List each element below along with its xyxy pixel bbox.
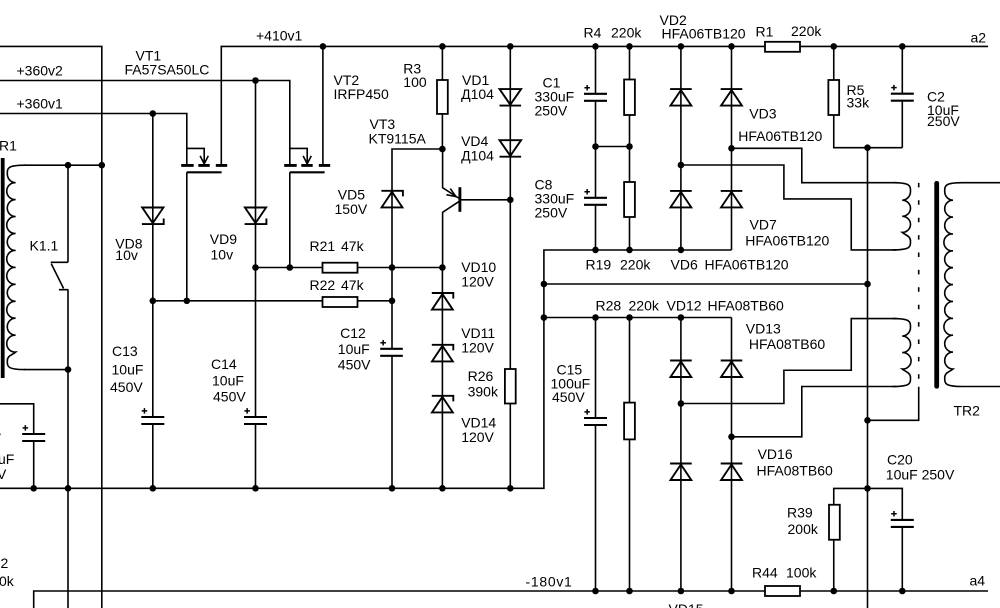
wire VT2 drain (322, 46, 324, 165)
resistor R4 (624, 80, 635, 116)
capacitor C8 (584, 189, 607, 205)
svg-text:10uF: 10uF (112, 362, 144, 378)
wire VD3 node to TR2 primary top (732, 148, 897, 182)
zener VD11 (432, 345, 454, 362)
svg-text:VD15: VD15 (669, 601, 704, 608)
wire -180v1 rail (34, 591, 988, 608)
svg-text:K1.1: K1.1 (30, 238, 59, 254)
zener VD9 (245, 208, 267, 225)
resistor R28 (624, 403, 635, 440)
zener VD5 (381, 191, 403, 208)
svg-text:HFA06TB120: HFA06TB120 (662, 26, 746, 42)
svg-text:C13: C13 (112, 343, 138, 359)
capacitor C15 (584, 409, 607, 425)
svg-text:220k: 220k (611, 25, 642, 41)
wire C15 column (595, 318, 597, 592)
node VD13 tap (728, 434, 735, 441)
svg-text:10uF 250V: 10uF 250V (886, 467, 955, 483)
node +410/VD2 (678, 43, 685, 50)
wire C1/R4 bottom link (596, 146, 630, 148)
svg-text:VD9: VD9 (210, 231, 237, 247)
capacitor C13 (141, 408, 164, 424)
node screen tap (864, 417, 871, 424)
transformer TR2 core bar (934, 181, 939, 389)
wire R22 net (153, 300, 392, 302)
wire VD12 node to TR2 lower primary top (681, 319, 897, 404)
wire VD8 column (152, 114, 154, 489)
wire TR1 top lead (24, 164, 102, 166)
relay contact K1.1 (51, 165, 69, 608)
svg-text:220k: 220k (629, 298, 660, 314)
wire R3 top (441, 46, 443, 80)
wire VD12-VD16 column (680, 318, 682, 592)
node +410/VD3 (728, 43, 735, 50)
svg-text:7: 7 (0, 430, 2, 446)
svg-text:C14: C14 (211, 356, 237, 372)
wire mid link line (544, 283, 868, 285)
node C1 bottom (592, 143, 599, 150)
zener VD10 (432, 293, 454, 310)
svg-text:450V: 450V (552, 389, 585, 405)
wire R4-R19 column (629, 46, 631, 250)
svg-text:VD7: VD7 (750, 217, 777, 233)
node +360v1/VD8 (150, 110, 157, 117)
diode VD7 (721, 191, 743, 208)
diode VD17 (721, 464, 743, 481)
svg-text:200k: 200k (788, 521, 819, 537)
svg-text:HFA08TB60: HFA08TB60 (708, 298, 784, 314)
svg-text:100: 100 (403, 74, 427, 90)
svg-text:47k: 47k (341, 277, 365, 293)
svg-text:150V: 150V (335, 201, 368, 217)
wire left cap bottom lead (33, 441, 35, 488)
svg-text:uF: uF (0, 451, 14, 467)
wire C1-C8 column (595, 46, 597, 250)
svg-text:2: 2 (1, 555, 9, 571)
node +410/R3 (439, 43, 446, 50)
svg-text:450V: 450V (338, 357, 371, 373)
svg-text:VD16: VD16 (758, 446, 793, 462)
svg-text:HFA08TB60: HFA08TB60 (757, 463, 833, 479)
resistor R3 (437, 80, 448, 114)
svg-text:390k: 390k (468, 383, 499, 399)
resistor R21 (323, 263, 358, 273)
junction dots C8 bottom line (592, 247, 684, 254)
svg-text:VD13: VD13 (746, 320, 781, 336)
svg-text:VD10: VD10 (461, 259, 496, 275)
wire VD13 node to TR2 lower primary bottom (732, 387, 897, 437)
svg-text:R44: R44 (752, 565, 778, 581)
node TR1 top / vertical bus (99, 162, 106, 169)
svg-text:+360v1: +360v1 (17, 96, 64, 112)
svg-text:a4: a4 (970, 573, 986, 589)
transformer TR2 core dashed screen (918, 183, 920, 379)
node +360v2/VD9 (252, 77, 259, 84)
svg-text:450V: 450V (110, 379, 143, 395)
node VD2/VD6 tap (678, 162, 685, 169)
svg-text:0k: 0k (0, 573, 15, 589)
diode VD2 (670, 89, 692, 106)
diode VD16 (670, 464, 692, 481)
zener VD14 (432, 396, 454, 413)
wire ground rail to R28 feed (0, 250, 732, 488)
transformer TR1 core bar (1, 158, 5, 378)
svg-text:+360v2: +360v2 (17, 63, 64, 79)
transformer TR2 primary lower winding (893, 319, 911, 387)
svg-text:10v: 10v (211, 246, 234, 262)
svg-text:100k: 100k (786, 565, 817, 581)
svg-text:47k: 47k (341, 238, 365, 254)
svg-text:120V: 120V (461, 339, 494, 355)
svg-text:120V: 120V (461, 429, 494, 445)
svg-text:33k: 33k (847, 95, 871, 111)
wire R39-C20 top link (834, 488, 903, 591)
resistor R5 (828, 80, 839, 115)
svg-text:+410v1: +410v1 (256, 28, 303, 44)
svg-text:VD3: VD3 (749, 105, 776, 121)
node +410/C1 (592, 43, 599, 50)
transformer TR2 secondary winding (944, 183, 963, 387)
wire VD5 column (392, 149, 442, 488)
svg-text:10uF: 10uF (212, 373, 244, 389)
svg-text:HFA06TB120: HFA06TB120 (745, 232, 829, 248)
svg-text:R21: R21 (310, 238, 336, 254)
svg-text:R1: R1 (756, 24, 774, 40)
capacitor C14 (244, 408, 267, 424)
svg-text:R19: R19 (586, 257, 612, 273)
svg-text:Д104: Д104 (461, 86, 494, 102)
diode VD12 (670, 361, 692, 378)
node +410/VD1 (507, 43, 514, 50)
svg-text:TR2: TR2 (954, 403, 981, 419)
diode VD1 (500, 89, 522, 106)
wire VD10-VD11-VD14 column (441, 268, 443, 489)
transformer TR2 primary upper winding (893, 183, 911, 250)
node right bus/R39-C20 (864, 485, 871, 492)
junction dots ground rail (30, 485, 513, 492)
capacitor C2 (891, 85, 914, 101)
node TR1 top / K1.1 (65, 162, 72, 169)
svg-text:a2: a2 (971, 30, 987, 46)
junction dots -180v1 rail (592, 588, 905, 595)
node VT3 base / VD4 (507, 197, 514, 204)
diode VD13 (721, 361, 743, 378)
node a2/C2 (899, 43, 906, 50)
wire R28 rail (544, 317, 732, 319)
wire VD1-VD4-R26 column (509, 46, 511, 488)
svg-text:IRFP450: IRFP450 (334, 86, 389, 102)
wire R21 net (256, 267, 443, 269)
svg-text:250V: 250V (535, 103, 568, 119)
svg-text:R28: R28 (596, 298, 622, 314)
svg-text:250V: 250V (927, 113, 960, 129)
svg-text:V: V (0, 466, 7, 482)
svg-text:HFA06TB120: HFA06TB120 (738, 128, 822, 144)
diode VD6 (670, 191, 692, 208)
wire VD3-VD7 column (731, 46, 733, 250)
svg-text:R39: R39 (787, 505, 813, 521)
svg-text:220k: 220k (791, 23, 822, 39)
node +410/R4 (626, 43, 633, 50)
wire VD2-VD6 column (680, 46, 682, 250)
wire R28 resistor column (629, 318, 631, 592)
wire TR2 screen tap (868, 387, 919, 421)
svg-text:120V: 120V (461, 274, 494, 290)
svg-text:HFA06TB120: HFA06TB120 (705, 257, 789, 273)
svg-text:C12: C12 (340, 325, 366, 341)
wire TR2 secondary top lead (963, 182, 1000, 184)
wire top-left segment and long vertical bus (0, 46, 102, 608)
node +410/VT2 drain (320, 43, 327, 50)
resistor R44 (765, 586, 800, 596)
resistor R39 (829, 505, 840, 540)
wire +360v2 line into VT2 source (0, 81, 290, 166)
svg-text:VD12: VD12 (667, 298, 702, 314)
resistor R26 (505, 369, 516, 404)
wire right vertical bus (867, 148, 869, 608)
svg-text:KT9115A: KT9115A (369, 131, 427, 147)
node TR1 bottom / K1.1 column (65, 366, 72, 373)
svg-text:10v: 10v (115, 247, 138, 263)
svg-text:R1: R1 (0, 138, 17, 154)
wire TR2 secondary bottom lead (963, 386, 1000, 388)
wire R3 bottom to VT3 emitter node (441, 114, 443, 149)
node R3/VD5/VT3e (439, 146, 446, 153)
transistor VT1 (MOSFET FA57SA50LC) (181, 148, 227, 172)
node mid link right (864, 281, 871, 288)
zener VD8 (142, 208, 164, 225)
svg-text:250V: 250V (535, 205, 568, 221)
svg-text:HFA08TB60: HFA08TB60 (749, 336, 825, 352)
transistor VT3 (KT9115A, PNP) (443, 149, 511, 268)
node R5-C2/right bus (864, 144, 871, 151)
svg-text:C20: C20 (887, 452, 913, 468)
svg-text:220k: 220k (620, 257, 651, 273)
resistor R19 (624, 182, 635, 217)
transistor VT2 (MOSFET IRFP450) (284, 148, 330, 172)
capacitor C1 (584, 85, 607, 101)
wire left cap top lead (0, 404, 34, 434)
svg-text:-180v1: -180v1 (526, 574, 573, 590)
capacitor C20 (891, 511, 914, 527)
wire VT1 gate (186, 172, 188, 300)
node VD12 tap (678, 400, 685, 407)
capacitor C12 (380, 340, 403, 356)
wire VT2 gate (289, 172, 291, 267)
node R4 bottom (626, 143, 633, 150)
resistor R22 (323, 297, 358, 307)
svg-text:R22: R22 (310, 277, 336, 293)
wire VD13-VD17 column (731, 318, 733, 592)
wire +410v1 rail to a2 (221, 46, 988, 165)
svg-text:R26: R26 (468, 368, 494, 384)
node VD3/VD7 tap (728, 145, 735, 152)
wire TR1 bottom lead (24, 369, 68, 371)
svg-text:VD6: VD6 (671, 257, 698, 273)
capacitor left-edge electrolytic (22, 425, 45, 441)
resistor R1 (765, 42, 800, 52)
svg-text:450V: 450V (213, 389, 246, 405)
svg-text:10uF: 10uF (338, 341, 370, 357)
junction dots R28 rail (541, 314, 685, 321)
junction dots R22 line (150, 298, 396, 305)
node a2/R5 (830, 43, 837, 50)
node mid link left (541, 281, 548, 288)
wire +360v1 line into VT1 source (0, 114, 187, 166)
svg-text:R4: R4 (584, 25, 602, 41)
wire VD2 node to TR2 primary bottom (681, 165, 897, 250)
wire VD9 column (255, 81, 257, 489)
diode VD3 (721, 89, 743, 106)
svg-text:Д104: Д104 (461, 147, 494, 163)
wire R5 branch (834, 46, 903, 147)
svg-text:FA57SA50LC: FA57SA50LC (125, 62, 210, 78)
diode VD4 (500, 140, 522, 157)
transformer TR1 winding (7, 165, 25, 369)
junction dots R21 line (252, 264, 446, 271)
